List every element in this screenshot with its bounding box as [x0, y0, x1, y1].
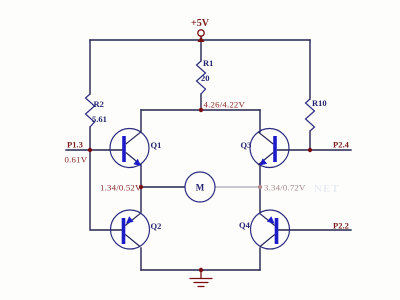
svg-text:4.26/4.22V: 4.26/4.22V: [204, 100, 246, 110]
svg-text:1.34/0.52V: 1.34/0.52V: [100, 183, 142, 193]
svg-text:P1.3: P1.3: [67, 140, 83, 150]
svg-text:+5V: +5V: [191, 18, 210, 29]
svg-text:M: M: [196, 183, 205, 193]
svg-text:20: 20: [201, 73, 210, 83]
svg-text:3.34/0.72V: 3.34/0.72V: [264, 183, 306, 193]
svg-text:Q4: Q4: [239, 220, 251, 230]
svg-text:P2.4: P2.4: [333, 140, 350, 150]
svg-text:P2.2: P2.2: [333, 221, 349, 231]
svg-text:R2: R2: [94, 99, 104, 109]
svg-text:NET: NET: [314, 183, 340, 195]
svg-text:Q2: Q2: [151, 221, 162, 231]
svg-text:R10: R10: [312, 98, 327, 108]
svg-text:0.61V: 0.61V: [65, 155, 88, 165]
svg-text:Q3: Q3: [241, 140, 252, 150]
svg-text:R1: R1: [203, 58, 213, 68]
svg-text:Q1: Q1: [151, 140, 162, 150]
svg-text:5.61: 5.61: [92, 114, 107, 124]
